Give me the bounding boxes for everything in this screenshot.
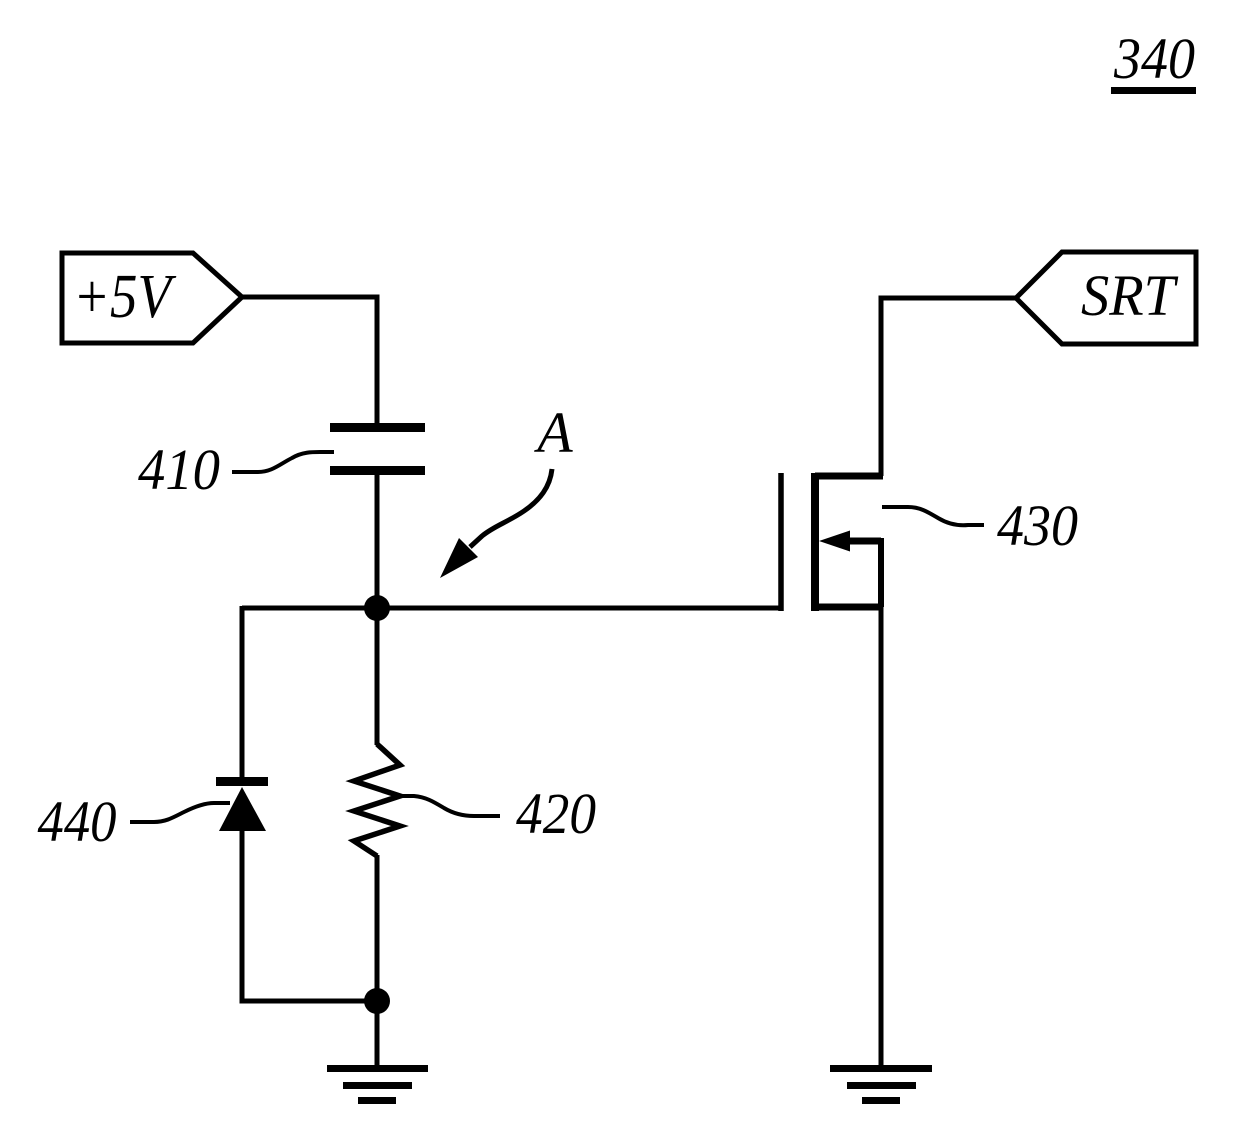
wire diode bottom to bottom node — [242, 831, 377, 1001]
svg-text:440: 440 — [38, 789, 117, 854]
svg-text:410: 410 — [138, 437, 220, 502]
svg-text:420: 420 — [516, 781, 596, 846]
resistor 420 — [354, 744, 400, 856]
arrow from label A to node A — [440, 469, 552, 578]
label 420 — [402, 781, 596, 846]
svg-text:SRT: SRT — [1081, 263, 1179, 328]
wire node A horizontal to MOSFET gate — [242, 606, 781, 611]
ground right — [830, 1069, 932, 1101]
label 430 — [882, 493, 1078, 558]
diode 440 — [216, 782, 268, 832]
svg-text:430: 430 — [997, 493, 1078, 558]
ground left — [327, 1069, 428, 1101]
svg-text:A: A — [533, 400, 573, 465]
svg-text:340: 340 — [1113, 26, 1195, 91]
transistor 430 source lead — [815, 604, 883, 611]
bottom junction dot — [364, 988, 390, 1014]
node A label — [533, 400, 573, 465]
wire capacitor bottom to node A — [375, 475, 380, 608]
transistor 430 gate bar — [778, 473, 784, 611]
resistor 420 top lead — [375, 608, 380, 745]
power flag +5V — [62, 253, 242, 343]
transistor 430 channel bar — [811, 473, 819, 611]
label 440 — [38, 789, 231, 854]
SRT flag — [1016, 252, 1196, 344]
resistor 420 bottom lead — [375, 855, 380, 1001]
capacitor 410 — [330, 428, 425, 471]
wire from +5V flag to capacitor top — [242, 297, 377, 427]
figure number 340 — [1111, 26, 1196, 94]
wire MOSFET source to right ground — [879, 607, 884, 1066]
transistor 430 body lead with arrow — [819, 531, 881, 608]
wire node A down-left branch to diode — [240, 606, 245, 779]
label 410 — [138, 437, 334, 502]
transistor 430 drain lead — [815, 473, 883, 480]
svg-text:+5V: +5V — [73, 263, 176, 331]
wire SRT flag to MOSFET drain — [881, 298, 1016, 476]
node A junction dot — [364, 595, 390, 621]
wire bottom node to left ground — [375, 1001, 380, 1066]
